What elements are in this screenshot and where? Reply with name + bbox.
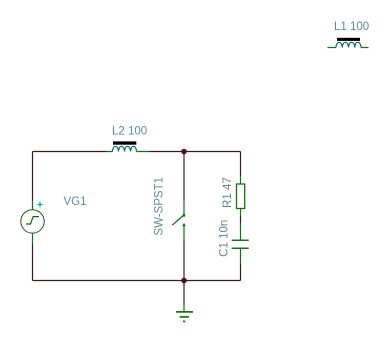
wire top-right horizontal bbox=[149, 151, 241, 153]
node bottom junction bbox=[181, 278, 187, 284]
wire middle upper vertical bbox=[183, 152, 185, 201]
svg-text:C1 10n: C1 10n bbox=[218, 220, 230, 257]
ground bbox=[176, 305, 193, 322]
wire between R1 and C1 bbox=[240, 216, 242, 223]
svg-text:R1 47: R1 47 bbox=[222, 177, 234, 208]
wire left lower vertical bbox=[32, 245, 34, 281]
svg-text:L1 100: L1 100 bbox=[334, 21, 369, 33]
wire right lower vertical bbox=[240, 264, 242, 281]
switch SW-SPST1 bbox=[172, 201, 186, 241]
wire right upper vertical bbox=[240, 152, 242, 177]
svg-text:VG1: VG1 bbox=[64, 196, 87, 208]
VG1 plus sign bbox=[37, 202, 43, 208]
inductor L1 bbox=[328, 38, 369, 48]
wire ground stem bbox=[183, 281, 185, 305]
node top junction bbox=[181, 149, 187, 155]
svg-text:L2 100: L2 100 bbox=[112, 126, 147, 138]
capacitor C1 bbox=[232, 223, 249, 264]
wire top-left horizontal bbox=[33, 151, 107, 153]
wire left upper vertical bbox=[32, 152, 34, 201]
svg-text:SW-SPST1: SW-SPST1 bbox=[153, 177, 165, 236]
wire middle lower vertical bbox=[183, 241, 185, 281]
voltage source VG1 bbox=[21, 201, 44, 245]
inductor L2 bbox=[107, 141, 150, 151]
wire bottom horizontal bbox=[33, 280, 241, 282]
resistor R1 bbox=[237, 176, 245, 216]
